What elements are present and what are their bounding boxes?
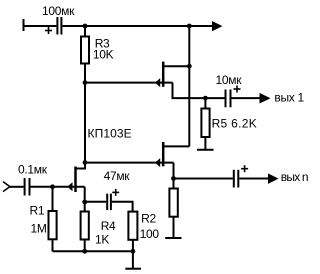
input chevron terminal bbox=[3, 182, 10, 192]
wire: C3 to out1 arrow bbox=[232, 97, 261, 99]
ground (main) bar bbox=[125, 268, 141, 270]
transistor Q3 (KP103E) channel bar bbox=[74, 167, 77, 193]
node: input / R1 junction bbox=[50, 184, 55, 189]
svg-text:10мк: 10мк bbox=[216, 73, 243, 87]
wire: supply vertical line bbox=[188, 26, 190, 146]
resistor R2 bbox=[128, 212, 137, 240]
Q2 source wire step bbox=[174, 163, 233, 179]
svg-text:1K: 1K bbox=[95, 232, 109, 246]
svg-text:R5 6.2K: R5 6.2K bbox=[212, 117, 257, 131]
svg-text:100: 100 bbox=[140, 227, 160, 241]
Q1 source wire step bbox=[173, 83, 225, 99]
Q3 drain wire step to node B bbox=[76, 162, 86, 168]
svg-text:100мк: 100мк bbox=[42, 4, 75, 18]
node B: Q3 drain / Q2 gate junction bbox=[83, 160, 88, 165]
svg-text:R4: R4 bbox=[101, 219, 116, 233]
wire: node B to Q2 gate/source bbox=[85, 162, 174, 164]
transistor Q1 (KP103E) channel bar bbox=[162, 62, 165, 87]
node A: R3 bottom / Q1 gate junction bbox=[83, 80, 88, 85]
resistor R3 bbox=[84, 26, 86, 37]
wire: node to C4 bbox=[85, 201, 107, 203]
wire: C2 to Q3 gate/source bbox=[31, 186, 85, 188]
transistor Q2 (KP103E) channel bar bbox=[162, 142, 165, 166]
node: top rail / R3 junction bbox=[83, 24, 88, 29]
capacitor C5 (out n) plates bbox=[233, 170, 235, 188]
node: Q2 source / out n / load resistor junction bbox=[171, 176, 176, 181]
capacitor C2 0.1mk plates bbox=[24, 178, 26, 196]
wire: C5 to out n arrow bbox=[239, 178, 268, 180]
node: out1 line / R5 junction bbox=[203, 96, 208, 101]
svg-text:47мк: 47мк bbox=[104, 169, 131, 183]
load resistor (out n) bbox=[173, 179, 175, 189]
Q1 gate arrow (p-channel) bbox=[155, 78, 160, 87]
svg-text:0.1мк: 0.1мк bbox=[18, 163, 48, 177]
node: bottom rail / R2 / ground junction bbox=[131, 249, 136, 254]
out n arrow bbox=[268, 173, 279, 184]
C4 polarity plus bbox=[112, 189, 119, 196]
svg-text:1M: 1M bbox=[31, 222, 47, 236]
capacitor C3 10mk plates bbox=[225, 90, 227, 108]
ground (R5) bbox=[197, 149, 214, 151]
input terminal (top left) bbox=[23, 19, 25, 31]
wire: C1 to supply arrow (top rail) bbox=[62, 25, 212, 27]
node: Q1 drain / supply junction bbox=[187, 64, 192, 69]
C5 polarity plus bbox=[241, 165, 248, 172]
Q2 drain wire bbox=[163, 145, 189, 147]
Q2 gate arrow (p-channel) bbox=[155, 158, 160, 167]
wire: node A to Q1 gate/source bbox=[85, 82, 173, 84]
capacitor C1 100mk plates bbox=[56, 17, 58, 35]
ground (load resistor) bbox=[165, 237, 181, 239]
node: Q3 source / C4 / R4 junction bbox=[82, 200, 87, 205]
svg-text:R1: R1 bbox=[30, 204, 45, 218]
svg-text:10K: 10K bbox=[93, 48, 114, 62]
supply rail arrow bbox=[212, 21, 223, 31]
wire: input terminal to C2 bbox=[10, 186, 24, 188]
node: bottom rail / R4 junction bbox=[82, 249, 87, 254]
ground (main) stub bbox=[132, 251, 134, 268]
svg-text:КП103Е: КП103Е bbox=[88, 126, 132, 140]
Q3 source wire step bbox=[84, 187, 86, 202]
resistor R1 bbox=[52, 187, 54, 211]
C3 polarity plus bbox=[234, 86, 241, 93]
svg-text:R2: R2 bbox=[141, 212, 156, 226]
wire: bottom rail bbox=[53, 250, 133, 252]
svg-text:вых 1: вых 1 bbox=[274, 91, 304, 105]
wire: C4 to R2 top bbox=[112, 202, 133, 212]
out1 arrow bbox=[260, 93, 271, 104]
Q1 drain wire bbox=[163, 65, 189, 67]
resistor R4 bbox=[84, 202, 86, 212]
wire: terminal to C1 bbox=[24, 25, 57, 27]
svg-text:вых n: вых n bbox=[281, 170, 308, 184]
capacitor C4 47mk plates bbox=[106, 194, 108, 211]
node: top rail / supply line junction bbox=[187, 24, 192, 29]
C1 polarity plus bbox=[45, 27, 52, 34]
resistor R5 bbox=[204, 98, 206, 108]
Q3 gate arrow (p-channel) bbox=[67, 182, 72, 191]
